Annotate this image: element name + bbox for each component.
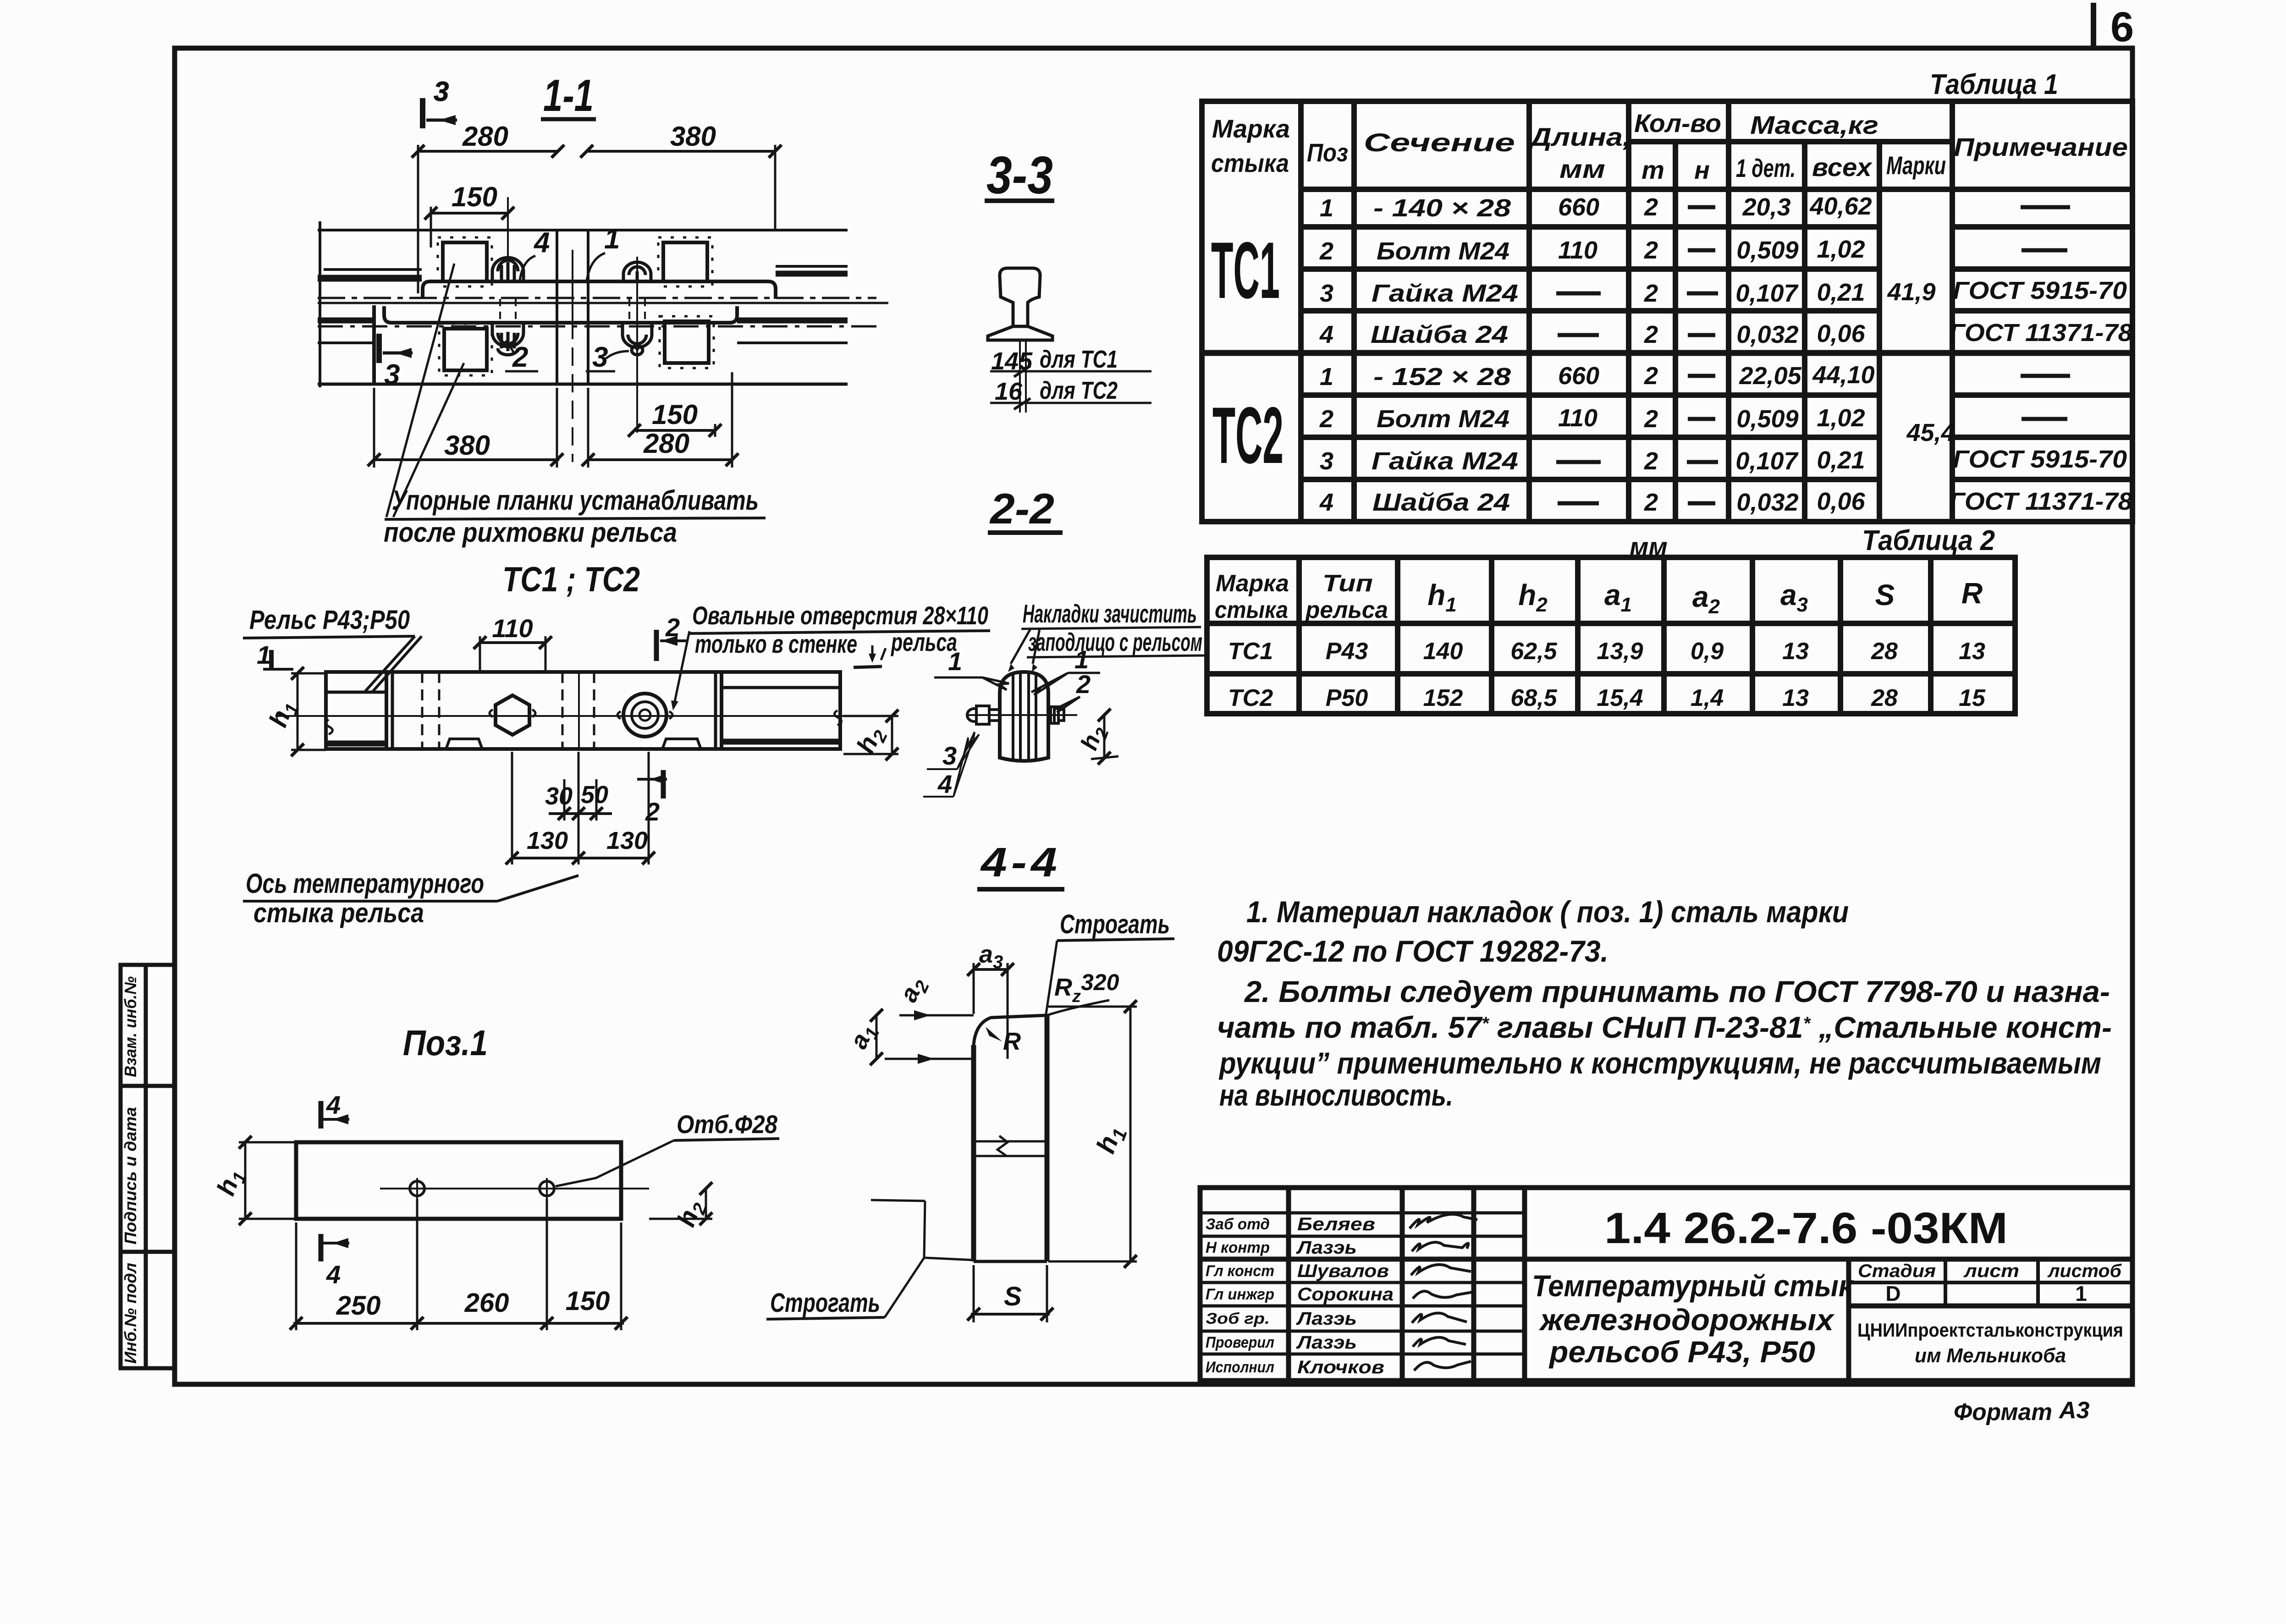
svg-text:Отб.Ф28: Отб.Ф28 xyxy=(677,1110,778,1139)
svg-text:280: 280 xyxy=(462,121,508,152)
svg-text:4: 4 xyxy=(1319,489,1333,516)
svg-text:Марка: Марка xyxy=(1216,570,1289,597)
svg-text:стыка: стыка xyxy=(1211,149,1289,177)
svg-text:Формат: Формат xyxy=(1954,1399,2052,1426)
svg-text:150: 150 xyxy=(566,1286,610,1316)
svg-text:2: 2 xyxy=(1644,489,1658,516)
svg-text:2: 2 xyxy=(1319,405,1333,433)
svg-text:Подпись и дата: Подпись и дата xyxy=(121,1107,140,1244)
svg-text:S: S xyxy=(1875,578,1895,611)
svg-text:145: 145 xyxy=(991,347,1033,375)
svg-text:13,9: 13,9 xyxy=(1597,638,1643,665)
svg-text:1: 1 xyxy=(257,640,271,669)
svg-text:4: 4 xyxy=(937,770,952,798)
svg-text:250: 250 xyxy=(336,1291,381,1321)
svg-text:после рихтовки рельса: после рихтовки рельса xyxy=(384,517,677,548)
svg-text:41,9: 41,9 xyxy=(1887,278,1935,306)
svg-text:0,21: 0,21 xyxy=(1817,279,1865,306)
svg-text:Зоб гр.: Зоб гр. xyxy=(1206,1310,1270,1327)
svg-text:ГОСТ 5915-70: ГОСТ 5915-70 xyxy=(1953,446,2127,473)
svg-text:Р50: Р50 xyxy=(1326,685,1368,711)
svg-text:260: 260 xyxy=(464,1288,509,1318)
svg-text:2: 2 xyxy=(1644,280,1658,307)
svg-text:2: 2 xyxy=(512,341,528,373)
svg-text:R: R xyxy=(1961,577,1983,610)
svg-text:Марка: Марка xyxy=(1212,114,1290,143)
svg-text:заподлицо с рельсом: заподлицо с рельсом xyxy=(1028,628,1202,656)
svg-text:50: 50 xyxy=(581,781,608,809)
svg-text:Примечание: Примечание xyxy=(1954,132,2128,161)
svg-text:ГОСТ 5915-70: ГОСТ 5915-70 xyxy=(1953,277,2127,304)
svg-text:0,509: 0,509 xyxy=(1736,405,1798,433)
svg-text:4: 4 xyxy=(1319,321,1333,348)
svg-text:для ТС1: для ТС1 xyxy=(1040,346,1118,373)
svg-text:Лазэь: Лазэь xyxy=(1296,1332,1357,1353)
svg-text:110: 110 xyxy=(1558,404,1597,432)
svg-text:0,06: 0,06 xyxy=(1817,488,1865,515)
svg-text:22,05: 22,05 xyxy=(1739,362,1801,390)
svg-text:Лазэь: Лазэь xyxy=(1296,1309,1357,1329)
svg-text:ТС2: ТС2 xyxy=(1212,391,1283,480)
svg-text:1: 1 xyxy=(1320,363,1333,391)
svg-text:ТС1 ; ТС2: ТС1 ; ТС2 xyxy=(502,560,640,599)
svg-text:1,02: 1,02 xyxy=(1817,236,1865,263)
svg-text:45,4: 45,4 xyxy=(1906,419,1955,446)
svg-text:чать по табл. 57* главы С: чать по табл. 57* главы СНиП П-23-81* „С… xyxy=(1217,1010,2112,1044)
svg-text:всех: всех xyxy=(1812,153,1873,182)
svg-text:Гайка М24: Гайка М24 xyxy=(1372,280,1518,307)
svg-text:Рельс Р43;Р50: Рельс Р43;Р50 xyxy=(249,605,410,635)
svg-text:лист: лист xyxy=(1963,1261,2019,1281)
svg-text:150: 150 xyxy=(652,399,698,430)
svg-text:a3: a3 xyxy=(979,941,1003,972)
svg-text:Гайка М24: Гайка М24 xyxy=(1372,447,1518,475)
svg-text:Шайба 24: Шайба 24 xyxy=(1372,489,1510,516)
svg-text:стыка: стыка xyxy=(1215,597,1288,623)
svg-text:a2: a2 xyxy=(894,973,933,1008)
svg-text:09Г2С-12 по ГОСТ 19282-73.: 09Г2С-12 по ГОСТ 19282-73. xyxy=(1217,934,1608,968)
svg-text:h1: h1 xyxy=(1427,578,1457,616)
svg-text:4: 4 xyxy=(326,1090,341,1119)
svg-text:Гл инжгр: Гл инжгр xyxy=(1206,1286,1274,1303)
svg-text:Клочков: Клочков xyxy=(1297,1357,1384,1377)
svg-text:н: н xyxy=(1694,155,1710,184)
svg-text:D: D xyxy=(1885,1282,1900,1305)
svg-text:1: 1 xyxy=(604,223,620,255)
svg-text:2: 2 xyxy=(1644,321,1658,348)
svg-text:Болт М24: Болт М24 xyxy=(1377,405,1509,433)
svg-text:110: 110 xyxy=(1558,237,1597,264)
svg-text:62,5: 62,5 xyxy=(1510,638,1557,665)
svg-text:ГОСТ 11371-78: ГОСТ 11371-78 xyxy=(1949,319,2132,347)
svg-text:для ТС2: для ТС2 xyxy=(1040,377,1118,404)
svg-text:Ось температурного: Ось температурного xyxy=(246,868,484,899)
svg-text:13: 13 xyxy=(1782,638,1809,665)
svg-text:130: 130 xyxy=(527,827,568,854)
svg-text:16: 16 xyxy=(995,378,1023,405)
svg-text:Тип: Тип xyxy=(1322,570,1373,597)
svg-text:2-2: 2-2 xyxy=(989,484,1054,533)
svg-text:Р43: Р43 xyxy=(1326,638,1368,665)
svg-text:Rz320: Rz320 xyxy=(1054,969,1119,1006)
svg-text:0,9: 0,9 xyxy=(1691,638,1724,665)
svg-text:Таблица 2: Таблица 2 xyxy=(1862,525,1995,556)
svg-text:150: 150 xyxy=(452,182,497,212)
svg-text:Лазэь: Лазэь xyxy=(1296,1238,1357,1258)
svg-text:А3: А3 xyxy=(2058,1397,2090,1424)
svg-text:280: 280 xyxy=(643,428,689,459)
svg-text:Сечение: Сечение xyxy=(1364,128,1515,157)
svg-text:Гл конст: Гл конст xyxy=(1206,1262,1274,1280)
svg-text:Овальные отверстия 28×110: Овальные отверстия 28×110 xyxy=(692,601,988,630)
svg-text:2: 2 xyxy=(1644,193,1658,221)
svg-text:Поз.1: Поз.1 xyxy=(403,1023,488,1063)
svg-text:0,509: 0,509 xyxy=(1736,237,1798,264)
svg-text:Шайба 24: Шайба 24 xyxy=(1371,321,1508,348)
svg-text:2. Болты следует принимат: 2. Болты следует принимать по ГОСТ 7798-… xyxy=(1244,974,2110,1008)
svg-text:Взам. инб.№: Взам. инб.№ xyxy=(121,976,140,1077)
svg-text:Строгать: Строгать xyxy=(1060,909,1170,939)
svg-text:0,06: 0,06 xyxy=(1817,320,1865,347)
svg-text:a3: a3 xyxy=(1780,578,1808,616)
svg-text:2: 2 xyxy=(1644,237,1658,264)
svg-text:ГОСТ 11371-78: ГОСТ 11371-78 xyxy=(1949,488,2132,515)
svg-text:15: 15 xyxy=(1959,685,1986,711)
svg-text:1,02: 1,02 xyxy=(1817,404,1865,432)
svg-text:a1: a1 xyxy=(1604,578,1632,616)
svg-text:Проверил: Проверил xyxy=(1206,1334,1274,1351)
svg-text:660: 660 xyxy=(1558,362,1599,390)
svg-text:44,10: 44,10 xyxy=(1812,361,1874,389)
svg-text:на выносливость.: на выносливость. xyxy=(1219,1078,1453,1112)
svg-text:Н контр: Н контр xyxy=(1206,1239,1270,1256)
svg-text:1: 1 xyxy=(2075,1282,2087,1305)
svg-text:ТС2: ТС2 xyxy=(1228,685,1273,711)
svg-text:Стадия: Стадия xyxy=(1858,1261,1936,1281)
svg-text:ТС1: ТС1 xyxy=(1228,638,1273,665)
svg-text:Длина,: Длина, xyxy=(1528,122,1631,151)
svg-text:2: 2 xyxy=(645,797,660,826)
svg-text:6: 6 xyxy=(2110,4,2134,50)
svg-text:13: 13 xyxy=(1782,685,1809,711)
svg-text:Сорокина: Сорокина xyxy=(1297,1284,1394,1305)
svg-text:1 дет.: 1 дет. xyxy=(1736,154,1796,182)
svg-text:380: 380 xyxy=(670,121,716,152)
svg-text:15,4: 15,4 xyxy=(1597,685,1643,711)
svg-text:3: 3 xyxy=(384,359,400,391)
svg-text:3: 3 xyxy=(434,76,449,107)
svg-text:1: 1 xyxy=(1320,194,1333,222)
svg-text:рельса: рельса xyxy=(891,628,957,656)
svg-text:40,62: 40,62 xyxy=(1809,193,1872,220)
svg-text:2: 2 xyxy=(1644,362,1658,390)
svg-text:h2: h2 xyxy=(1076,722,1113,755)
svg-text:ЦНИИпроектстальконструкция: ЦНИИпроектстальконструкция xyxy=(1857,1319,2123,1341)
svg-text:2: 2 xyxy=(1644,405,1658,433)
svg-text:Температурный стык: Температурный стык xyxy=(1532,1269,1854,1303)
svg-text:h1: h1 xyxy=(1091,1122,1131,1158)
svg-text:3: 3 xyxy=(1320,447,1333,475)
svg-text:Шувалов: Шувалов xyxy=(1297,1261,1389,1281)
svg-text:28: 28 xyxy=(1871,685,1898,711)
svg-text:1.4 26.2-7.6 -03КМ: 1.4 26.2-7.6 -03КМ xyxy=(1604,1204,2008,1253)
svg-text:0,032: 0,032 xyxy=(1736,489,1798,516)
svg-text:Марки: Марки xyxy=(1886,151,1946,180)
svg-text:4: 4 xyxy=(326,1260,341,1289)
svg-text:Заб отд: Заб отд xyxy=(1206,1216,1270,1233)
svg-text:Инб.№ подл: Инб.№ подл xyxy=(121,1263,140,1364)
svg-text:0,107: 0,107 xyxy=(1735,280,1799,307)
svg-text:68,5: 68,5 xyxy=(1510,685,1557,711)
svg-text:2: 2 xyxy=(1644,447,1658,475)
svg-text:листоб: листоб xyxy=(2047,1261,2122,1281)
svg-text:- 152 × 28: - 152 × 28 xyxy=(1373,363,1511,391)
svg-text:мм: мм xyxy=(1559,154,1605,183)
svg-text:4: 4 xyxy=(533,227,550,259)
svg-text:30: 30 xyxy=(545,782,573,810)
svg-text:Исполнил: Исполнил xyxy=(1206,1359,1274,1376)
svg-text:0,032: 0,032 xyxy=(1736,321,1798,348)
svg-text:a2: a2 xyxy=(1692,580,1720,618)
svg-text:S: S xyxy=(1004,1282,1022,1311)
svg-text:130: 130 xyxy=(606,827,648,854)
svg-text:1-1: 1-1 xyxy=(543,70,594,121)
svg-text:рукции” применительно к ко: рукции” применительно к конструкциям, не… xyxy=(1218,1046,2101,1080)
svg-text:только в стенке: только в стенке xyxy=(695,629,857,658)
svg-text:4-4: 4-4 xyxy=(980,840,1061,886)
svg-text:0,21: 0,21 xyxy=(1817,446,1865,474)
svg-text:3-3: 3-3 xyxy=(986,145,1053,205)
svg-text:660: 660 xyxy=(1558,193,1599,221)
svg-text:1: 1 xyxy=(948,647,962,676)
svg-text:железнодорожных: железнодорожных xyxy=(1539,1303,1834,1337)
svg-text:- 140 × 28: - 140 × 28 xyxy=(1373,194,1511,222)
svg-text:28: 28 xyxy=(1871,638,1898,665)
svg-text:Таблица 1: Таблица 1 xyxy=(1930,69,2058,100)
svg-text:им Мельникоба: им Мельникоба xyxy=(1915,1344,2066,1367)
svg-text:рельса: рельса xyxy=(1305,597,1388,623)
svg-text:2: 2 xyxy=(665,613,680,642)
svg-text:110: 110 xyxy=(492,614,533,643)
svg-text:3: 3 xyxy=(942,741,957,770)
svg-text:3: 3 xyxy=(1320,280,1333,307)
svg-text:Упорные планки устанабливать: Упорные планки устанабливать xyxy=(392,485,759,516)
svg-text:h2: h2 xyxy=(1518,578,1548,616)
svg-text:140: 140 xyxy=(1423,638,1463,665)
svg-text:R: R xyxy=(1003,1028,1021,1055)
svg-text:Поз: Поз xyxy=(1307,138,1348,167)
svg-text:1,4: 1,4 xyxy=(1691,685,1724,711)
svg-text:ТС1: ТС1 xyxy=(1211,226,1280,315)
svg-text:рельсоб Р43, Р50: рельсоб Р43, Р50 xyxy=(1548,1335,1815,1369)
svg-text:2: 2 xyxy=(1319,237,1333,265)
svg-text:0,107: 0,107 xyxy=(1735,447,1799,475)
svg-text:Накладки зачистить: Накладки зачистить xyxy=(1023,599,1197,628)
svg-text:20,3: 20,3 xyxy=(1742,193,1790,221)
svg-text:13: 13 xyxy=(1959,638,1985,665)
svg-text:Масса,кг: Масса,кг xyxy=(1750,110,1878,139)
svg-text:Болт М24: Болт М24 xyxy=(1377,237,1509,265)
svg-text:152: 152 xyxy=(1423,685,1463,711)
svg-text:380: 380 xyxy=(444,430,490,461)
svg-text:1. Материал накладок ( поз: 1. Материал накладок ( поз. 1) сталь мар… xyxy=(1246,895,1849,929)
svg-text:Строгать: Строгать xyxy=(770,1288,880,1318)
svg-text:Беляев: Беляев xyxy=(1297,1214,1375,1234)
svg-text:т: т xyxy=(1642,155,1664,184)
svg-text:Кол-во: Кол-во xyxy=(1634,109,1721,138)
